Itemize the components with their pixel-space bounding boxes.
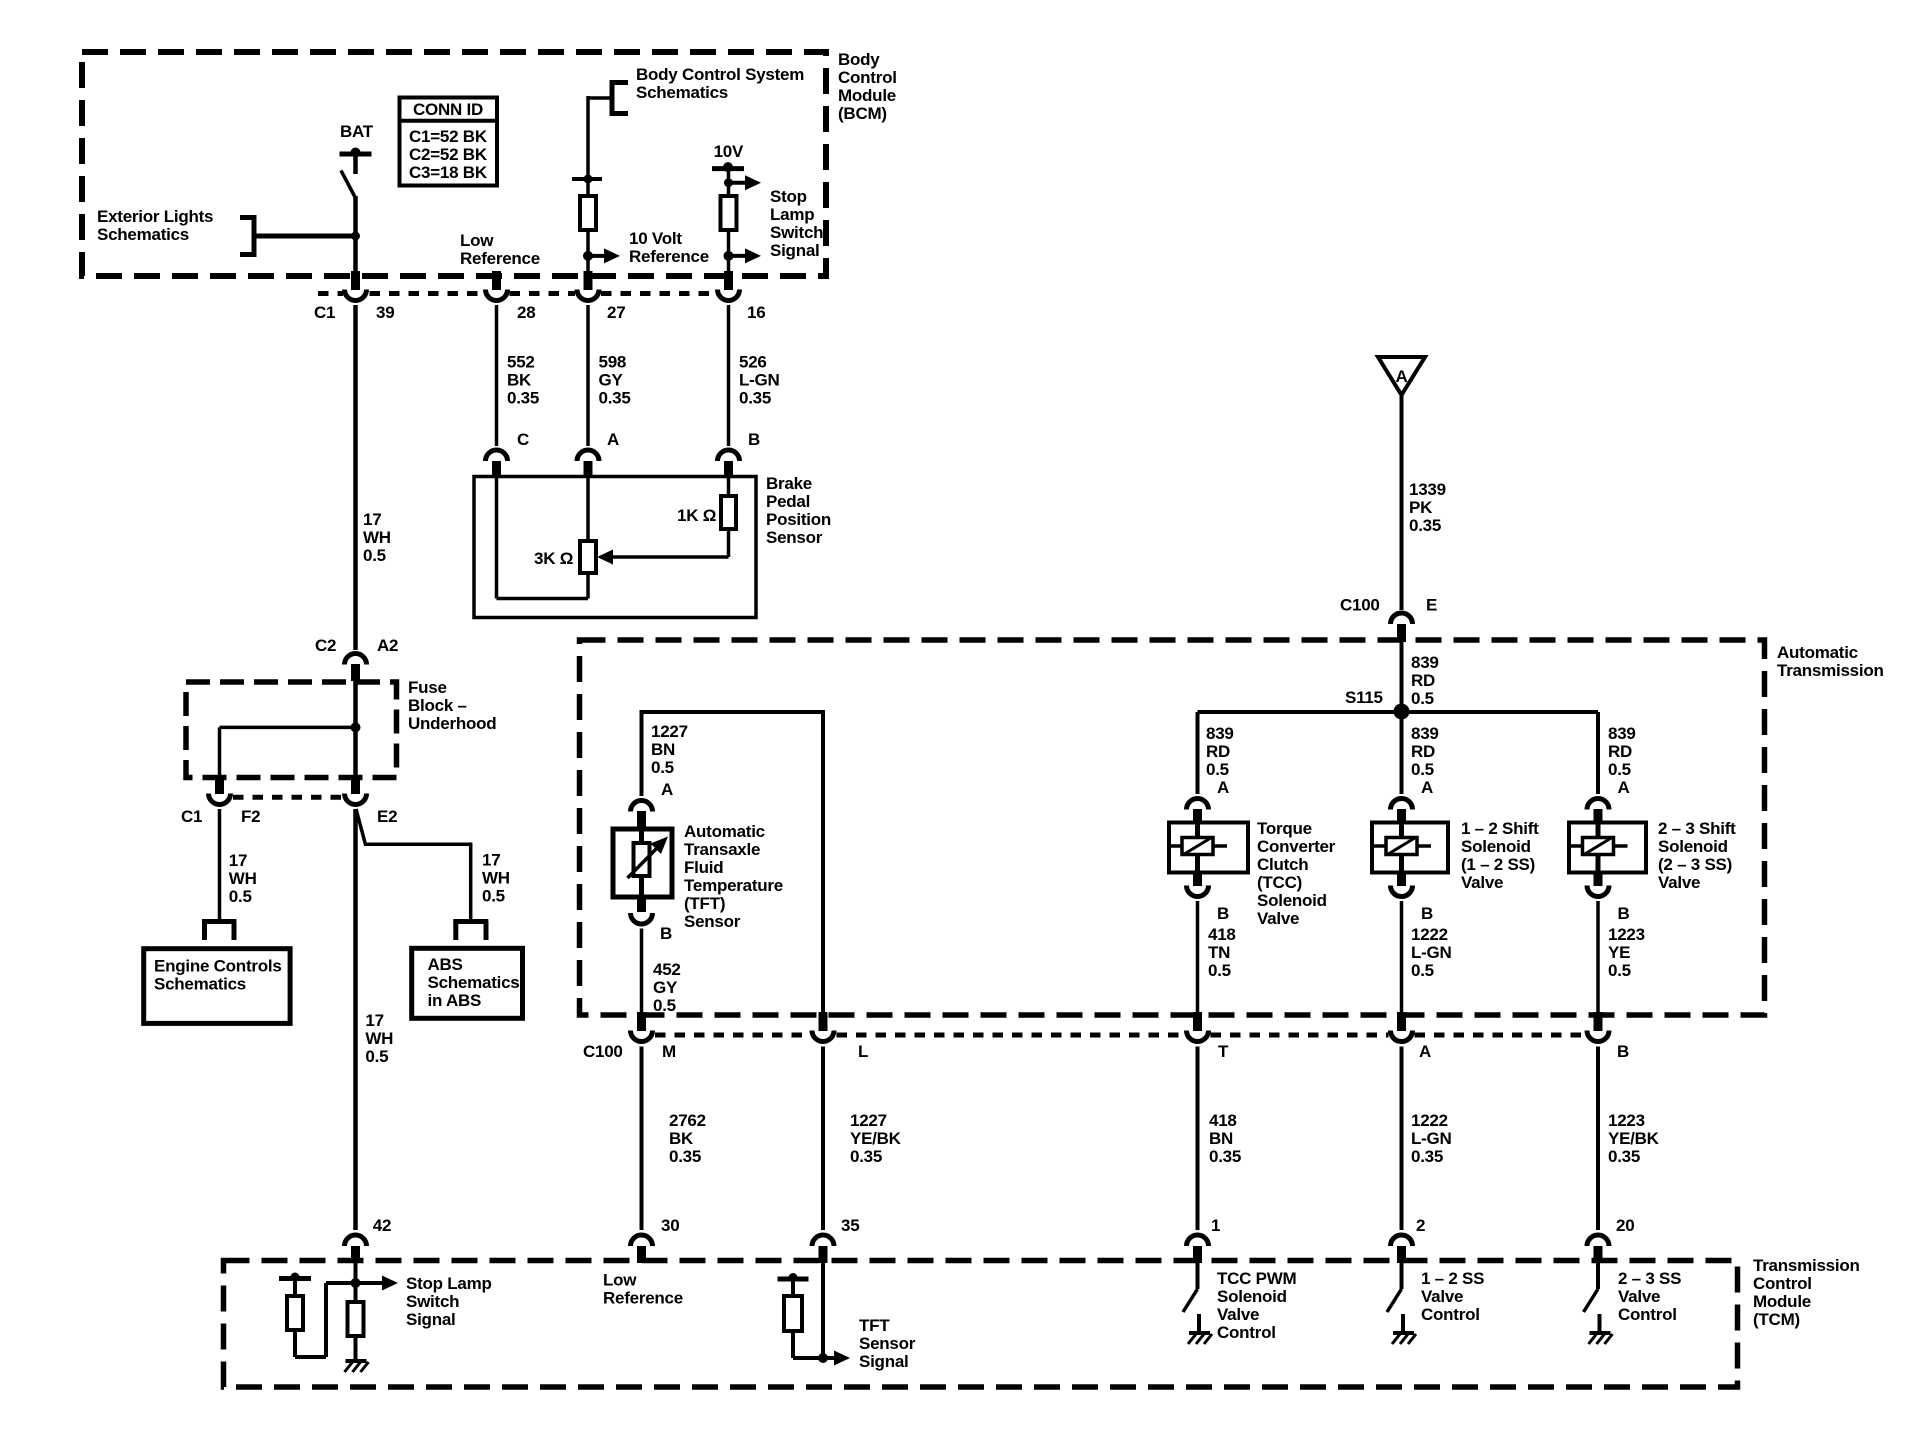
automatic transmission dashed box <box>580 640 1765 1015</box>
label A2 <box>377 636 398 655</box>
svg-text:in ABS: in ABS <box>428 991 482 1010</box>
wire 1223 YEBK B to pin 20 <box>1596 1047 1600 1231</box>
svg-text:Valve: Valve <box>1217 1305 1259 1324</box>
ground TCC PWM driver <box>1188 1333 1212 1344</box>
svg-text:2 – 3 SS: 2 – 3 SS <box>1618 1269 1681 1288</box>
svg-text:B: B <box>1618 904 1630 923</box>
engine controls schematics box <box>144 949 290 1024</box>
arrow TFT Sensor Signal <box>823 1351 850 1366</box>
label wire 839 RD 0.5 (2-3) <box>1608 724 1636 779</box>
2-3 shift solenoid valve box <box>1569 823 1646 873</box>
svg-text:RD: RD <box>1411 742 1435 761</box>
svg-text:0.35: 0.35 <box>1409 516 1441 535</box>
connector pin A TCC solenoid valve terminal <box>1187 799 1209 810</box>
svg-text:Converter: Converter <box>1257 837 1336 856</box>
svg-text:0.5: 0.5 <box>653 996 676 1015</box>
svg-text:L-GN: L-GN <box>1411 1129 1452 1148</box>
svg-text:WH: WH <box>229 869 257 888</box>
label TCC solenoid valve text <box>1257 819 1336 928</box>
label wire 839 RD 0.5 (TCC) <box>1206 724 1234 779</box>
svg-text:C100: C100 <box>583 1042 623 1061</box>
ABS schematics box <box>412 948 523 1018</box>
connector C100 pin T stub <box>1193 1012 1202 1031</box>
label pin F2 <box>241 807 260 826</box>
label Body Control Module (BCM) <box>838 50 897 123</box>
junction 10 volt reference <box>583 251 593 261</box>
svg-text:A: A <box>1618 778 1630 797</box>
label pin L <box>858 1042 868 1061</box>
label Automatic Transmission <box>1777 643 1884 680</box>
svg-text:Switch: Switch <box>406 1292 459 1311</box>
wire pin C interior <box>497 477 589 599</box>
svg-text:Stop Lamp: Stop Lamp <box>406 1274 492 1293</box>
svg-text:BN: BN <box>651 740 675 759</box>
svg-text:1223: 1223 <box>1608 925 1645 944</box>
svg-text:30: 30 <box>661 1216 679 1235</box>
TCM dashed box <box>224 1261 1738 1388</box>
wire resistor to pin 27 <box>586 230 590 273</box>
label wire 1223 YE/BK 0.35 <box>1608 1111 1660 1166</box>
CONN ID table <box>400 98 498 186</box>
off-page bracket ABS <box>453 922 488 941</box>
svg-text:YE/BK: YE/BK <box>850 1129 902 1148</box>
resistor 10 volt reference <box>580 196 596 230</box>
connector pin 20 stub <box>1594 1246 1603 1263</box>
svg-text:C1=52 BK: C1=52 BK <box>409 127 488 146</box>
connector pin F2 stub <box>215 775 224 794</box>
svg-text:A: A <box>1396 367 1408 386</box>
connector pin 35 terminal <box>812 1235 834 1246</box>
svg-text:Solenoid: Solenoid <box>1257 891 1327 910</box>
svg-text:1223: 1223 <box>1608 1111 1645 1130</box>
svg-text:YE/BK: YE/BK <box>1608 1129 1660 1148</box>
label Exterior Lights Schematics <box>97 207 213 244</box>
label Low Reference (BCM) <box>460 231 540 268</box>
svg-text:16: 16 <box>747 303 765 322</box>
label wire 17 WH 0.5 (ABS) <box>482 851 510 906</box>
svg-text:Fuse: Fuse <box>408 678 447 697</box>
svg-text:Sensor: Sensor <box>766 528 823 547</box>
svg-text:Lamp: Lamp <box>770 205 814 224</box>
svg-text:GY: GY <box>653 978 678 997</box>
wire F2 to engine controls <box>218 809 222 921</box>
svg-text:Valve: Valve <box>1257 909 1299 928</box>
label wire 552 BK 0.35 <box>507 353 539 408</box>
svg-text:Solenoid: Solenoid <box>1461 837 1531 856</box>
label pin 16 <box>747 303 765 322</box>
label C100 row <box>583 1042 623 1061</box>
resistor TCM TFT pullup <box>784 1296 802 1331</box>
connector pin A stub <box>584 461 593 477</box>
label 2-3 shift solenoid valve text <box>1658 819 1736 892</box>
BAT supply tick <box>340 148 372 158</box>
wire 17 WH E2 to pin 42 <box>353 809 358 1230</box>
connector pin B 2-3 shift solenoid valve stub <box>1594 871 1603 886</box>
wire left resistor loop <box>295 1283 326 1357</box>
svg-text:C: C <box>517 430 529 449</box>
svg-text:0.5: 0.5 <box>1411 689 1434 708</box>
svg-text:TFT: TFT <box>859 1316 890 1335</box>
wire TCC PWM driver upper <box>1196 1263 1200 1289</box>
connector pin 27 stub <box>584 271 593 290</box>
svg-text:Schematics: Schematics <box>154 975 246 994</box>
label wire 839 RD 0.5 (top) <box>1411 653 1439 708</box>
label wire 526 L-GN 0.35 <box>739 353 780 408</box>
svg-text:C2: C2 <box>315 636 336 655</box>
svg-text:Solenoid: Solenoid <box>1217 1287 1287 1306</box>
svg-text:20: 20 <box>1616 1216 1634 1235</box>
label wire 418 TN 0.5 <box>1208 925 1236 980</box>
svg-text:Schematics: Schematics <box>636 83 728 102</box>
svg-text:RD: RD <box>1411 671 1435 690</box>
svg-text:0.35: 0.35 <box>739 389 771 408</box>
wire BAT stub <box>353 154 358 174</box>
label Stop Lamp Switch Signal (BCM) <box>770 187 823 260</box>
connector C100 pin L terminal <box>812 1031 834 1042</box>
label pin 2 <box>1416 1216 1425 1235</box>
svg-text:17: 17 <box>229 851 247 870</box>
connector pin B TCC solenoid valve stub <box>1193 871 1202 886</box>
connector pin B 1-2 shift solenoid valve terminal <box>1391 886 1413 897</box>
wire 598 GY pin27 to A <box>586 305 590 446</box>
svg-text:BK: BK <box>669 1129 694 1148</box>
label 2-3 SS driver <box>1618 1269 1681 1324</box>
1-2 shift solenoid valve wire stubs <box>1399 822 1404 872</box>
wire TCC PWM driver lower stub <box>1197 1314 1201 1332</box>
wire 1339 PK triangle to C100 <box>1400 395 1404 610</box>
label C1 fuse connector <box>181 807 202 826</box>
wire tick to left resistor <box>293 1279 297 1297</box>
svg-text:17: 17 <box>482 851 500 870</box>
svg-text:Exterior Lights: Exterior Lights <box>97 207 213 226</box>
label TCC PWM driver <box>1217 1269 1297 1342</box>
svg-text:0.35: 0.35 <box>507 389 539 408</box>
svg-text:Engine Controls: Engine Controls <box>154 957 282 976</box>
svg-text:1 – 2 Shift: 1 – 2 Shift <box>1461 819 1539 838</box>
wire 2-3 SS driver upper <box>1596 1263 1600 1289</box>
label TFT pin A <box>661 780 673 799</box>
TFT thermistor element <box>634 829 650 897</box>
svg-text:YE: YE <box>1608 943 1630 962</box>
wire 2-3 SS driver lower stub <box>1598 1314 1602 1332</box>
connector row dotted line C100 <box>655 1033 1585 1038</box>
svg-text:B: B <box>1421 904 1433 923</box>
svg-text:0.35: 0.35 <box>669 1147 701 1166</box>
wire tick to TFT resistor <box>791 1279 795 1296</box>
svg-text:L: L <box>858 1042 868 1061</box>
wire 1227 BN loop <box>642 712 824 1012</box>
svg-text:T: T <box>1218 1042 1229 1061</box>
svg-text:Pedal: Pedal <box>766 492 810 511</box>
connector pin C stub <box>492 461 501 477</box>
svg-text:GY: GY <box>599 371 624 390</box>
junction TFT sensor signal <box>818 1353 828 1363</box>
svg-text:0.5: 0.5 <box>482 887 505 906</box>
switch blade 2-3 SS driver <box>1584 1289 1599 1312</box>
connector pin B TCC solenoid valve terminal <box>1187 886 1209 897</box>
junction stop lamp lower <box>724 251 734 261</box>
svg-text:839: 839 <box>1206 724 1234 743</box>
connector pin 28 terminal <box>486 290 508 301</box>
svg-text:PK: PK <box>1409 498 1433 517</box>
svg-text:RD: RD <box>1206 742 1230 761</box>
label pin 35 <box>841 1216 859 1235</box>
wire 1222 L-GN A to pin 2 <box>1400 1047 1404 1231</box>
label TFT Sensor Signal <box>859 1316 916 1371</box>
svg-text:Brake: Brake <box>766 474 812 493</box>
connector pin 16 stub <box>724 271 733 290</box>
svg-text:B: B <box>748 430 760 449</box>
svg-text:1 – 2 SS: 1 – 2 SS <box>1421 1269 1484 1288</box>
switch blade stop lamp switch <box>341 171 356 199</box>
connector pin A terminal <box>577 450 599 461</box>
label C2 <box>315 636 336 655</box>
svg-text:1339: 1339 <box>1409 480 1446 499</box>
svg-text:0.5: 0.5 <box>363 546 386 565</box>
svg-text:552: 552 <box>507 353 535 372</box>
TFT sensor box <box>613 829 672 897</box>
svg-text:2762: 2762 <box>669 1111 706 1130</box>
connector C2-A2 terminal <box>345 654 367 665</box>
svg-text:10V: 10V <box>714 142 744 161</box>
connector C100 pin A2row terminal <box>1391 1031 1413 1042</box>
connector C100 pin B2row terminal <box>1587 1031 1609 1042</box>
connector pin 2 stub <box>1397 1246 1406 1263</box>
svg-text:Low: Low <box>460 231 494 250</box>
connector C100 pin M stub <box>637 1012 646 1031</box>
label wire 17 WH 0.5 (lower) <box>365 1011 393 1066</box>
wire tick to resistor <box>586 179 590 196</box>
label Transmission Control Module (TCM) <box>1753 1256 1860 1329</box>
svg-text:0.5: 0.5 <box>1608 961 1631 980</box>
BCM module dashed box <box>82 52 826 276</box>
svg-text:Automatic: Automatic <box>1777 643 1858 662</box>
svg-text:Valve: Valve <box>1461 873 1503 892</box>
supply tick TFT pullup <box>778 1273 809 1282</box>
connector pin 16 terminal <box>718 290 740 301</box>
connector pin A TCC solenoid valve stub <box>1193 809 1202 824</box>
svg-text:10 Volt: 10 Volt <box>629 229 682 248</box>
svg-text:Signal: Signal <box>406 1310 456 1329</box>
connector pin 2 terminal <box>1391 1235 1413 1246</box>
svg-text:17: 17 <box>365 1011 383 1030</box>
wire main through fuse block <box>353 681 358 775</box>
svg-text:Reference: Reference <box>460 249 540 268</box>
arrow Stop Lamp Switch Signal TCM <box>382 1276 398 1291</box>
svg-text:Reference: Reference <box>629 247 709 266</box>
wire 552 BK pin28 to C <box>495 305 499 446</box>
label 3K ohm <box>534 549 573 568</box>
junction S in fuse block <box>351 722 361 732</box>
svg-text:F2: F2 <box>241 807 260 826</box>
svg-text:(TCC): (TCC) <box>1257 873 1302 892</box>
connector pin 27 terminal <box>577 290 599 301</box>
wire pin A to potentiometer <box>586 477 590 541</box>
connector C100 pin A2row stub <box>1397 1012 1406 1031</box>
connector pin A 2-3 shift solenoid valve stub <box>1594 809 1603 824</box>
svg-text:WH: WH <box>365 1029 393 1048</box>
svg-text:BAT: BAT <box>340 122 374 141</box>
connector pin 39 stub <box>351 271 360 290</box>
supply tick on 10 volt reference <box>572 175 602 184</box>
svg-text:ABS: ABS <box>428 955 463 974</box>
svg-text:452: 452 <box>653 960 681 979</box>
svg-text:Body: Body <box>838 50 880 69</box>
label splice S115 <box>1345 688 1383 707</box>
junction S115 <box>1394 704 1410 720</box>
svg-text:BN: BN <box>1209 1129 1233 1148</box>
label Low Reference TCM <box>603 1271 683 1308</box>
10V supply tick <box>712 162 744 172</box>
svg-text:A: A <box>607 430 619 449</box>
arrow stop lamp switch signal lower <box>729 248 762 263</box>
connector pin 28 stub <box>492 271 501 290</box>
svg-text:Module: Module <box>1753 1292 1811 1311</box>
svg-text:Underhood: Underhood <box>408 714 496 733</box>
switch blade TCC PWM driver <box>1183 1289 1198 1312</box>
svg-text:B: B <box>660 924 672 943</box>
svg-text:0.35: 0.35 <box>1209 1147 1241 1166</box>
label 1K ohm <box>677 506 716 525</box>
label pin A <box>607 430 619 449</box>
svg-text:WH: WH <box>482 869 510 888</box>
resistor TCM pullup left <box>287 1296 303 1330</box>
svg-text:WH: WH <box>363 528 391 547</box>
connector pin 39 terminal <box>345 290 367 301</box>
svg-text:2 – 3 Shift: 2 – 3 Shift <box>1658 819 1736 838</box>
svg-text:1222: 1222 <box>1411 1111 1448 1130</box>
label wire 418 BN 0.35 <box>1209 1111 1241 1166</box>
label C1 connector <box>314 303 335 322</box>
ground 2-3 SS driver <box>1589 1333 1613 1344</box>
wire bracket to 10V ref branch <box>588 96 612 179</box>
connector C100-E stub <box>1397 624 1406 642</box>
wire pin 35 into TCM <box>821 1263 825 1358</box>
svg-text:Schematics: Schematics <box>97 225 189 244</box>
resistor TCM pulldown center <box>348 1302 364 1336</box>
svg-text:Position: Position <box>766 510 831 529</box>
svg-text:839: 839 <box>1411 653 1439 672</box>
svg-text:Reference: Reference <box>603 1289 683 1308</box>
svg-text:Body Control System: Body Control System <box>636 65 804 84</box>
TCC solenoid valve diagonal <box>1184 838 1212 855</box>
svg-text:35: 35 <box>841 1216 859 1235</box>
label pin A 1-2 shift solenoid valve <box>1421 778 1433 797</box>
svg-text:0.35: 0.35 <box>599 389 631 408</box>
svg-text:CONN ID: CONN ID <box>413 100 483 119</box>
svg-text:Block –: Block – <box>408 696 467 715</box>
label wire 1227 YE/BK 0.35 <box>850 1111 902 1166</box>
svg-text:Torque: Torque <box>1257 819 1312 838</box>
svg-text:C100: C100 <box>1340 596 1380 615</box>
svg-text:(TCM): (TCM) <box>1753 1310 1800 1329</box>
label wire 1223 YE 0.5 <box>1608 925 1645 980</box>
svg-text:Low: Low <box>603 1271 637 1290</box>
svg-text:2: 2 <box>1416 1216 1425 1235</box>
connector C100 pin T terminal <box>1187 1031 1209 1042</box>
label Automatic Transaxle Fluid Temperature (TFT) Sensor <box>684 822 783 931</box>
connector pin B stub <box>724 461 733 477</box>
1-2 shift solenoid valve box <box>1372 823 1448 873</box>
label pin B row <box>1617 1042 1629 1061</box>
connector TFT pin A stub <box>637 811 646 829</box>
switch blade 1-2 SS driver <box>1387 1289 1402 1312</box>
connector pin B 2-3 shift solenoid valve terminal <box>1587 886 1609 897</box>
label pin 20 <box>1616 1216 1634 1235</box>
TCC solenoid valve wire stubs <box>1195 822 1200 872</box>
label wire 2762 BK 0.35 <box>669 1111 706 1166</box>
label wire 452 GY 0.5 <box>653 960 681 1015</box>
wire pin 42 into TCM <box>354 1263 358 1302</box>
connector pin F2 terminal <box>209 794 231 805</box>
label pin B <box>748 430 760 449</box>
connector C2-A2 stub <box>351 664 360 681</box>
connector pin B terminal <box>718 450 740 461</box>
svg-text:BK: BK <box>507 371 532 390</box>
connector pin 1 stub <box>1193 1246 1202 1263</box>
label wire 17 WH 0.5 (F2) <box>229 851 257 906</box>
svg-text:0.5: 0.5 <box>1411 961 1434 980</box>
svg-text:526: 526 <box>739 353 767 372</box>
svg-text:TCC PWM: TCC PWM <box>1217 1269 1297 1288</box>
wire 1227 YEBK L to pin 35 <box>821 1047 825 1231</box>
wire S115 to 1-2 solenoid <box>1400 712 1404 794</box>
svg-text:0.5: 0.5 <box>651 758 674 777</box>
wire fuse block branch <box>220 727 356 775</box>
wire S115 to TCC solenoid <box>1196 712 1200 794</box>
label wire 17 WH 0.5 (upper) <box>363 510 391 565</box>
wire 418 BN T to pin 1 <box>1196 1047 1200 1231</box>
wire 839 RD C100 to S115 <box>1400 641 1404 713</box>
svg-text:(2 – 3 SS): (2 – 3 SS) <box>1658 855 1732 874</box>
wire 2762 BK M to pin 30 <box>640 1047 644 1231</box>
wire 1222 L-GN 1-2B to C100 <box>1400 901 1404 1012</box>
connector C100 pin B2row stub <box>1594 1012 1603 1031</box>
wire S115 to 2-3 solenoid <box>1596 712 1600 794</box>
connector pin 30 stub <box>637 1246 646 1263</box>
connector pin C terminal <box>486 450 508 461</box>
svg-text:Valve: Valve <box>1421 1287 1463 1306</box>
brake pedal position sensor box <box>474 477 756 618</box>
wire Exterior Lights to BAT node <box>256 234 356 239</box>
connector pin 42 stub <box>351 1246 360 1263</box>
label pin A row <box>1419 1042 1431 1061</box>
svg-text:C1: C1 <box>181 807 202 826</box>
svg-text:Clutch: Clutch <box>1257 855 1308 874</box>
svg-text:Valve: Valve <box>1658 873 1700 892</box>
connector TFT pin B terminal <box>631 913 653 924</box>
svg-text:Control: Control <box>1618 1305 1677 1324</box>
svg-text:A: A <box>1421 778 1433 797</box>
label wire 839 RD 0.5 (1-2) <box>1411 724 1439 779</box>
connector C100-E terminal <box>1391 613 1413 624</box>
svg-text:839: 839 <box>1411 724 1439 743</box>
svg-text:(BCM): (BCM) <box>838 104 887 123</box>
label wire 1222 L-GN 0.5 <box>1411 925 1452 980</box>
wiper arrow into 3K <box>597 550 613 565</box>
junction at BAT feed <box>351 232 360 241</box>
1-2 shift solenoid valve diagonal <box>1388 838 1416 855</box>
label Fuse Block - Underhood <box>408 678 496 733</box>
label ABS Schematics in ABS <box>428 955 520 1010</box>
svg-text:L-GN: L-GN <box>1411 943 1452 962</box>
connector pin 20 terminal <box>1587 1235 1609 1246</box>
wire TFT resistor to junction <box>793 1331 823 1358</box>
wire node to pin 39 <box>353 196 358 273</box>
label pin 1 <box>1211 1216 1220 1235</box>
svg-text:Schematics: Schematics <box>428 973 520 992</box>
connector pin 30 terminal <box>631 1235 653 1246</box>
